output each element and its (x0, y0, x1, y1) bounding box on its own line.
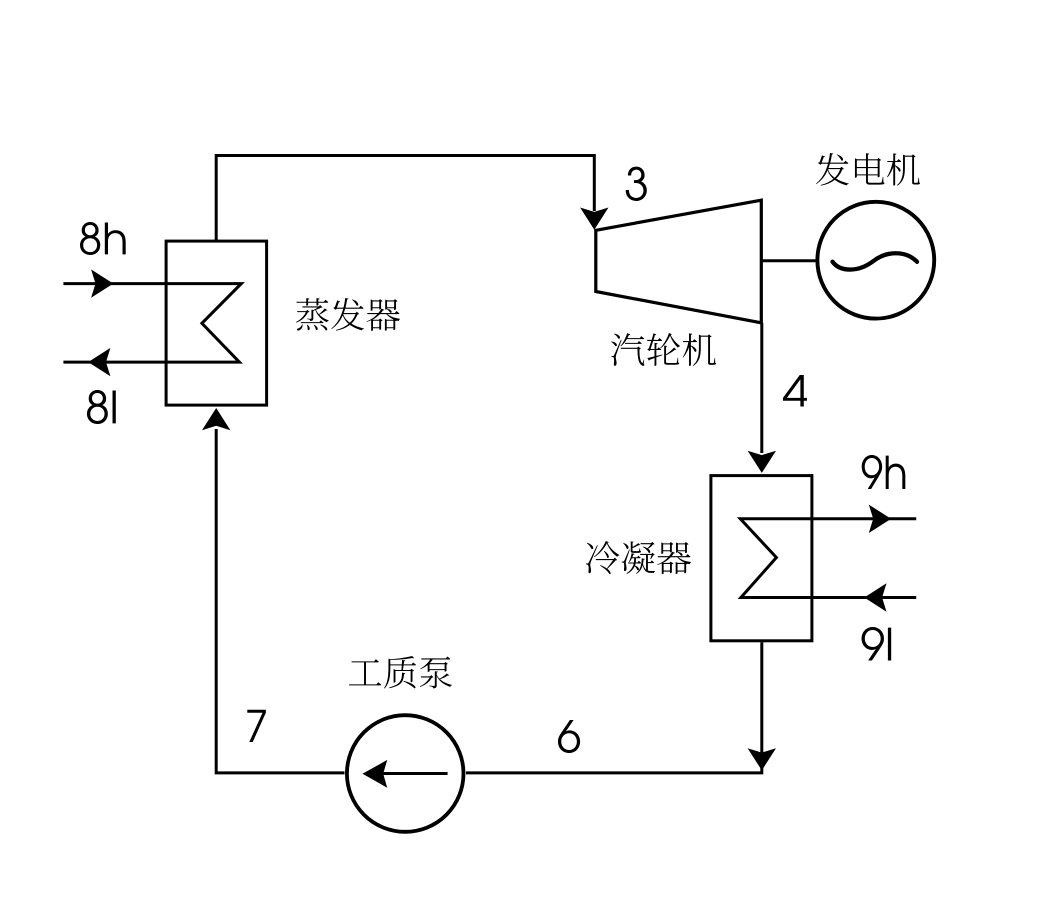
label lbl-8h: 8h (80, 222, 126, 255)
condenser coil + cooling water wires 9h/9l (740, 519, 916, 598)
wire: evaporator top to turbine inlet (state 3) (216, 156, 594, 241)
arrow into condenser top (748, 451, 776, 473)
generator sine symbol (833, 253, 918, 269)
label lbl-zhengfaqi: 蒸发器 (296, 298, 400, 331)
arrow into turbine inlet (580, 208, 608, 230)
label lbl-4: 4 (783, 375, 807, 407)
arrow 9h outflow (869, 505, 891, 533)
label lbl-lengningqi: 冷凝器 (586, 541, 691, 574)
condenser HX2 (冷凝器) body (711, 476, 812, 641)
label lbl-gongzhibeng: 工质泵 (349, 656, 452, 689)
label lbl-9l: 9l (862, 627, 892, 661)
turbine U1 (汽轮机) trapezoid (596, 200, 762, 323)
evaporator HX1 (蒸发器) body (166, 241, 267, 405)
pump P1 (工质泵) circle (347, 715, 464, 832)
label lbl-7: 7 (247, 710, 266, 742)
arrow 9l inflow (864, 583, 886, 611)
wire: pump to evaporator (state 7) (216, 429, 344, 773)
generator G1 (发电机) circle (817, 202, 934, 319)
arrow 8l outflow (88, 348, 110, 376)
wire: condenser to pump (state 6) (466, 642, 762, 773)
label lbl-8l: 8l (87, 390, 116, 424)
evaporator coil + heat source wires 8h/8l (63, 284, 241, 363)
label lbl-3: 3 (626, 167, 647, 201)
label lbl-fadianji: 发电机 (816, 153, 920, 186)
arrow 8h inflow (91, 269, 113, 297)
pump internal flow arrow (381, 772, 448, 775)
label lbl-6: 6 (558, 720, 580, 753)
shaft wire turbine to generator (761, 259, 816, 262)
label lbl-9h: 9h (862, 455, 906, 489)
arrow up into evaporator bottom (202, 408, 230, 430)
wire: turbine outlet to condenser (state 4) (760, 323, 763, 453)
arrow downward before bottom corner (748, 748, 776, 770)
label lbl-qilunji: 汽轮机 (611, 333, 716, 366)
